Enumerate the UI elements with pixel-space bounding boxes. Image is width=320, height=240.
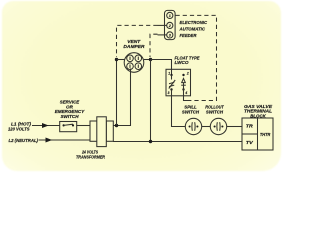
- svg-text:2: 2: [168, 24, 171, 28]
- pin 1 label: [169, 14, 171, 18]
- svg-text:TV: TV: [246, 140, 254, 145]
- svg-text:SWITCH: SWITCH: [182, 109, 200, 114]
- wire damper right terminal horizontal: [144, 59, 151, 61]
- label TV terminal: [246, 140, 254, 145]
- wire spill to rollout: [202, 126, 211, 128]
- svg-text:LWCO: LWCO: [175, 60, 189, 65]
- LWCO right float contact: [181, 78, 186, 89]
- spill switch S2: [185, 118, 201, 134]
- node B damper right dot: [149, 58, 152, 61]
- node C rail junction dot: [149, 140, 152, 143]
- label TR terminal: [246, 124, 254, 129]
- svg-text:SWITCH: SWITCH: [206, 109, 224, 114]
- label service switch: [55, 100, 85, 120]
- svg-text:BLOCK: BLOCK: [250, 113, 266, 118]
- wire L2 neutral lead: [39, 139, 91, 141]
- wire damper right drop to lower rail: [150, 60, 152, 142]
- wire LWCO terminal 3 to spill switch: [172, 90, 186, 127]
- pin 2 label: [168, 24, 171, 28]
- wire transformer secondary top: [113, 69, 131, 126]
- label gas valve terminal block: [244, 104, 273, 119]
- vent damper plug P1: [124, 53, 144, 73]
- label L1 hot: [8, 121, 31, 131]
- LWCO terminal dots: [170, 74, 184, 91]
- svg-text:L2 (NEUTRAL): L2 (NEUTRAL): [9, 138, 39, 143]
- svg-text:4: 4: [184, 91, 187, 95]
- svg-text:THTR: THTR: [260, 132, 271, 137]
- node J1 junction dot: [115, 124, 118, 127]
- label electronic automatic feeder: [179, 20, 208, 38]
- wire feeder stub 2: [158, 24, 167, 26]
- lower 24V rail: [113, 141, 242, 143]
- switch S1 service/emergency switch box: [60, 122, 77, 132]
- LWCO corner pin numbers: [168, 71, 189, 95]
- label spill switch: [182, 105, 200, 115]
- wire damper left terminal horizontal: [117, 59, 125, 61]
- svg-text:DAMPER: DAMPER: [123, 44, 145, 49]
- dashed wire feeder terminal 1 to LWCO terminal 4: [176, 15, 217, 100]
- arrow L1: [42, 123, 49, 128]
- node A damper left dot: [115, 58, 118, 61]
- svg-text:TRANSFORMER: TRANSFORMER: [76, 154, 106, 159]
- svg-text:SWITCH: SWITCH: [61, 114, 80, 119]
- label THTR terminal: [260, 132, 271, 137]
- svg-text:2: 2: [186, 71, 189, 75]
- svg-text:ELECTRONIC: ELECTRONIC: [180, 20, 208, 25]
- wire LWCO terminal 4 drop: [184, 90, 189, 101]
- wire switch to transformer primary top: [77, 125, 90, 127]
- wire damper to LWCO terminal 1: [151, 60, 172, 75]
- dashed wire feeder terminal 3 to damper right: [150, 34, 158, 57]
- label transformer: [76, 149, 106, 159]
- wire rollout to gas valve TR: [227, 126, 242, 128]
- svg-text:TR: TR: [246, 124, 254, 129]
- gas valve terminal block TB1: [242, 118, 273, 150]
- svg-text:FEEDER: FEEDER: [180, 33, 198, 38]
- rollout switch S3: [210, 118, 226, 134]
- svg-text:3: 3: [168, 91, 170, 95]
- pin 3 label: [169, 33, 171, 37]
- feeder terminal block U1: [165, 10, 176, 39]
- label L2 neutral: [9, 138, 39, 143]
- LWCO left float contact: [169, 75, 175, 89]
- dashed wire feeder terminal 2 to damper left: [117, 25, 158, 57]
- arrow L2: [46, 138, 53, 143]
- label float type LWCO: [175, 56, 201, 66]
- svg-text:1: 1: [169, 14, 171, 18]
- wire L1 hot lead: [32, 125, 60, 127]
- svg-text:3: 3: [169, 33, 171, 37]
- svg-text:AUTOMATIC: AUTOMATIC: [179, 27, 206, 32]
- svg-text:120 VOLTS: 120 VOLTS: [8, 126, 30, 131]
- svg-text:1: 1: [168, 71, 170, 75]
- label rollout switch: [205, 105, 224, 115]
- wire damper left terminal drop: [116, 60, 118, 126]
- wire feeder stub 3: [158, 34, 167, 36]
- transformer T1 24 volts: [90, 117, 113, 147]
- label vent damper: [123, 39, 145, 49]
- LWCO float switch box: [166, 69, 191, 96]
